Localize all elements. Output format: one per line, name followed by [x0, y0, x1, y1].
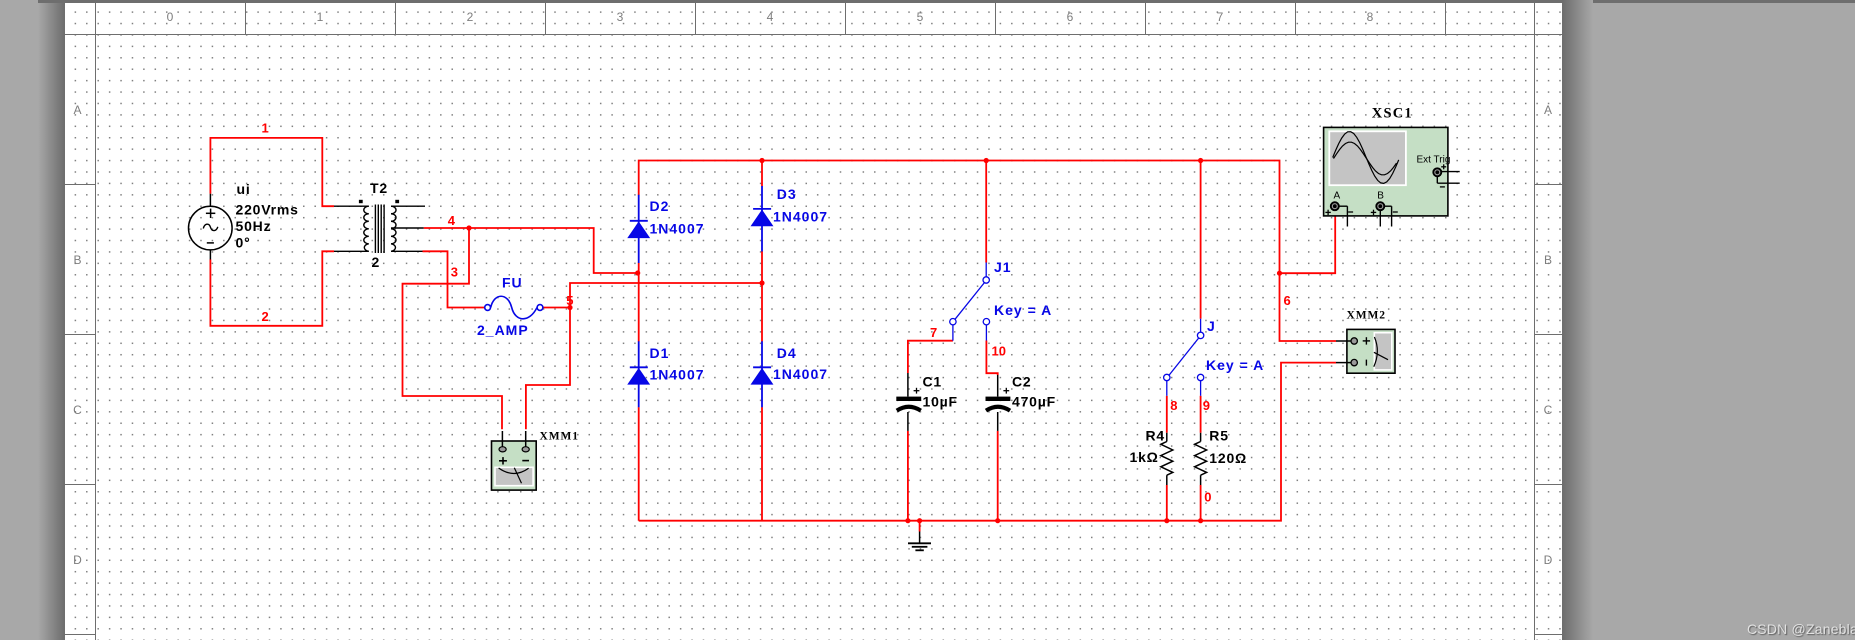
wire J common from top rail	[1200, 161, 1202, 319]
svg-text:8: 8	[1367, 10, 1374, 24]
svg-text:1: 1	[262, 120, 269, 135]
svg-text:ui: ui	[237, 181, 251, 197]
wire C2 bottom to bottom rail	[997, 431, 999, 521]
transformer T2	[334, 201, 425, 254]
svg-text:R5: R5	[1209, 428, 1229, 444]
svg-text:Key = A: Key = A	[1206, 357, 1264, 373]
wire net 2 (source bottom to transformer primary bottom)	[210, 251, 334, 325]
svg-text:2: 2	[467, 10, 474, 24]
XSC1 channel B terminal	[1376, 202, 1384, 210]
node D2/wire4 junction	[635, 270, 640, 275]
svg-text:B: B	[73, 253, 81, 267]
wire R4 bottom to bottom rail	[1166, 485, 1168, 521]
svg-text:10µF: 10µF	[923, 393, 958, 409]
wire C1 bottom to bottom rail	[907, 431, 909, 521]
svg-text:J: J	[1207, 318, 1216, 334]
wire D2 cathode to D1 anode segment	[638, 263, 640, 342]
svg-text:7: 7	[1217, 10, 1224, 24]
svg-text:D: D	[73, 553, 82, 567]
svg-text:120Ω: 120Ω	[1209, 450, 1247, 466]
XSC1 channel A terminal	[1331, 202, 1339, 210]
svg-text:6: 6	[1067, 10, 1074, 24]
svg-text:3: 3	[451, 265, 458, 280]
node 4 junction	[466, 225, 471, 230]
svg-text:1: 1	[317, 10, 324, 24]
LABELS	[236, 180, 1248, 466]
svg-text:D3: D3	[777, 186, 797, 202]
AC source ui	[189, 194, 233, 260]
wire bottom rail	[639, 363, 1336, 521]
svg-text:T2: T2	[370, 180, 388, 196]
svg-text:2: 2	[372, 254, 381, 270]
diode D4 1N4007	[752, 341, 773, 407]
resistor R4	[1161, 433, 1173, 485]
wire net 9 (J right throw to R5)	[1200, 396, 1202, 433]
wire net 5 branch up (node 5 to D3/D4 junction)	[570, 283, 762, 308]
svg-text:C: C	[1544, 403, 1553, 417]
node J1 top rail junction	[984, 158, 989, 163]
svg-text:B: B	[1544, 253, 1552, 267]
svg-text:10: 10	[992, 344, 1006, 359]
svg-text:1kΩ: 1kΩ	[1130, 449, 1159, 465]
wire D3 top red stub	[761, 161, 763, 187]
svg-text:7: 7	[930, 325, 937, 340]
svg-text:2_AMP: 2_AMP	[477, 322, 529, 338]
wire net 7 (J1 left throw to C1)	[908, 341, 953, 373]
svg-text:5: 5	[917, 10, 924, 24]
svg-text:0: 0	[1204, 490, 1211, 505]
svg-text:XMM2: XMM2	[1347, 309, 1386, 321]
capacitor C1	[896, 373, 921, 431]
wire net 4 branch (node 4 down to XMM1 plus)	[403, 228, 503, 429]
svg-text:D2: D2	[650, 198, 670, 214]
wire D4 bottom to bottom rail	[761, 407, 763, 521]
wire R5 bottom to bottom rail	[1200, 485, 1202, 521]
multimeter XMM1	[492, 431, 537, 490]
switch J1	[950, 263, 990, 341]
multimeter XMM2	[1336, 329, 1395, 373]
svg-text:XMM1: XMM1	[540, 431, 579, 443]
svg-text:C1: C1	[923, 373, 943, 389]
svg-text:C: C	[73, 403, 82, 417]
svg-text:470µF: 470µF	[1012, 393, 1056, 409]
wire D3 bottom to D4 top	[761, 251, 763, 341]
svg-text:0°: 0°	[236, 235, 251, 251]
wire top rail (bridge output to right column)	[639, 161, 1336, 342]
svg-text:XSC1: XSC1	[1372, 106, 1413, 122]
diode D3 1N4007	[752, 186, 773, 252]
capacitor C2	[986, 375, 1011, 431]
svg-text:0: 0	[167, 10, 174, 24]
node J top rail junction	[1198, 158, 1203, 163]
wire net 1 (source top to transformer primary top)	[210, 138, 334, 206]
wire net 5 (fuse right to node 5)	[543, 307, 570, 309]
svg-text:5: 5	[566, 293, 573, 308]
svg-text:R4: R4	[1146, 428, 1166, 444]
svg-text:3: 3	[617, 10, 624, 24]
svg-text:D1: D1	[650, 345, 670, 361]
wire net 10 (J1 right throw to C2)	[986, 341, 997, 376]
svg-text:1N4007: 1N4007	[650, 366, 705, 382]
svg-text:C2: C2	[1012, 373, 1032, 389]
svg-text:50Hz: 50Hz	[236, 218, 272, 234]
node C2 bottom rail junction	[995, 518, 1000, 523]
diode D1 1N4007	[628, 341, 649, 407]
svg-text:1N4007: 1N4007	[773, 209, 828, 225]
fuse FU	[485, 296, 543, 319]
svg-text:Key = A: Key = A	[994, 302, 1052, 318]
wire D1 bottom to bottom rail	[638, 407, 640, 521]
svg-text:A: A	[1544, 103, 1552, 117]
svg-text:J1: J1	[994, 259, 1012, 275]
svg-text:4: 4	[767, 10, 774, 24]
svg-text:D4: D4	[777, 345, 797, 361]
oscilloscope XSC1	[1324, 127, 1460, 226]
node C1 bottom rail junction	[905, 518, 910, 523]
node D3 top rail junction	[759, 158, 764, 163]
svg-text:A: A	[1334, 191, 1341, 202]
svg-text:Ext Trig: Ext Trig	[1417, 155, 1451, 166]
wire ground stub red	[919, 521, 921, 532]
node 5 junction	[567, 305, 572, 310]
svg-text:2: 2	[262, 309, 269, 324]
node D3/D4 junction	[759, 280, 764, 285]
svg-text:1N4007: 1N4007	[773, 366, 828, 382]
svg-text:220Vrms: 220Vrms	[236, 202, 299, 218]
svg-text:8: 8	[1170, 398, 1177, 413]
node R5 bottom rail junction	[1198, 518, 1203, 523]
diode D2 1N4007	[628, 195, 649, 263]
node R4 bottom rail junction	[1164, 518, 1169, 523]
svg-text:D: D	[1544, 553, 1553, 567]
svg-text:B: B	[1377, 191, 1384, 202]
wire J1 common from top rail	[985, 161, 987, 263]
wire net 8 (J left throw to R4)	[1166, 396, 1168, 433]
resistor R5	[1195, 433, 1207, 485]
svg-text:4: 4	[448, 213, 456, 228]
wire net 4 (transformer mid tap to bridge D2 junction)	[424, 228, 638, 273]
svg-text:A: A	[73, 103, 81, 117]
ground	[908, 532, 931, 551]
svg-text:9: 9	[1203, 398, 1210, 413]
switch J	[1164, 319, 1204, 396]
svg-text:6: 6	[1284, 293, 1291, 308]
node right column XSC1 junction	[1277, 271, 1282, 276]
wire net 3 (transformer bottom to fuse left)	[423, 251, 485, 307]
svg-text:FU: FU	[502, 275, 523, 291]
node ground bottom rail junction	[917, 518, 922, 523]
svg-text:1N4007: 1N4007	[650, 220, 705, 236]
wire XSC1 channel A drop	[1280, 210, 1336, 273]
XSC1 ext trig terminal	[1433, 168, 1441, 176]
wire net 5 branch down (node 5 to XMM1 minus)	[526, 308, 570, 430]
